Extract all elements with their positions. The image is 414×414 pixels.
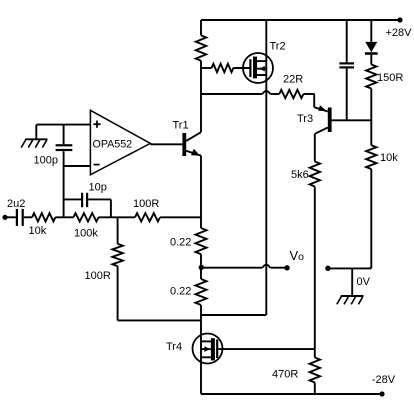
svg-text:5k6: 5k6 <box>291 169 309 181</box>
svg-text:22R: 22R <box>283 74 303 86</box>
svg-text:+28V: +28V <box>386 27 413 39</box>
svg-text:10k: 10k <box>380 152 398 164</box>
svg-text:0.22: 0.22 <box>170 286 191 298</box>
svg-text:10k: 10k <box>29 225 47 237</box>
svg-text:Tr4: Tr4 <box>166 341 182 353</box>
svg-text:Tr3: Tr3 <box>297 113 313 125</box>
svg-text:Vo: Vo <box>290 248 305 263</box>
svg-text:0.22: 0.22 <box>170 237 191 249</box>
svg-text:100R: 100R <box>85 270 111 282</box>
svg-text:Tr2: Tr2 <box>270 41 286 53</box>
svg-text:10p: 10p <box>89 181 107 193</box>
svg-text:470R: 470R <box>272 369 298 381</box>
svg-text:150R: 150R <box>377 72 403 84</box>
svg-text:2u2: 2u2 <box>7 198 25 210</box>
svg-text:100p: 100p <box>34 154 58 166</box>
svg-text:0V: 0V <box>357 276 371 288</box>
svg-text:-28V: -28V <box>372 374 396 386</box>
svg-text:Tr1: Tr1 <box>173 120 189 132</box>
svg-text:100R: 100R <box>133 198 159 210</box>
svg-text:OPA552: OPA552 <box>93 139 133 151</box>
svg-text:100k: 100k <box>74 228 98 240</box>
